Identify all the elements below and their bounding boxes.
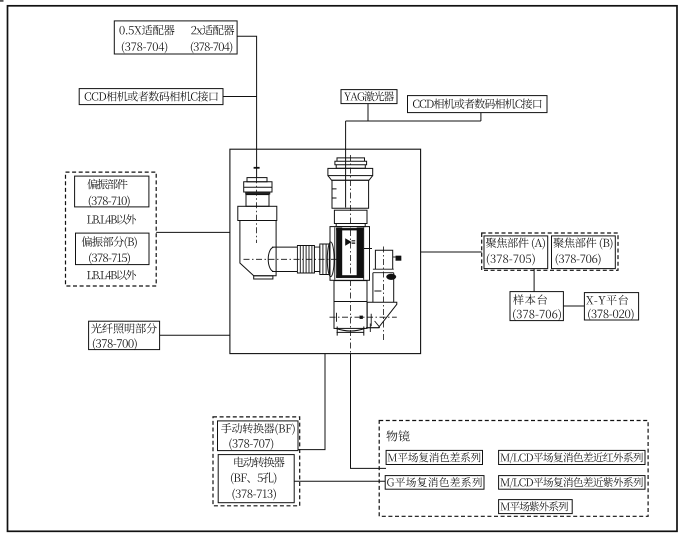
camera port top ring — [247, 178, 267, 182]
beam coupler right black bar — [357, 228, 363, 278]
wire from enclosure bottom to manual nosepiece box — [298, 354, 325, 450]
camera elbow bottom plate — [254, 276, 273, 279]
wire from motor nosepiece box to objective series box — [294, 480, 385, 482]
right attachment prism housing — [367, 302, 397, 328]
wire from fiber illuminator label to enclosure — [160, 334, 230, 336]
dashed group box: focus parts — [482, 233, 618, 270]
note text: LB.L4B excluded (upper) — [87, 214, 136, 224]
beam coupler top band — [336, 228, 363, 230]
note text: LB.L4B excluded (lower) — [87, 270, 136, 280]
microscope enclosure rectangle — [230, 149, 421, 353]
camera port flange — [238, 206, 277, 220]
column lower tube — [334, 281, 367, 302]
label box: specimen stage (378-706) — [510, 292, 563, 321]
camera elbow body — [240, 221, 276, 276]
label box: focus part A (378-705) — [484, 236, 548, 269]
label box: M plan UV series — [499, 500, 573, 514]
relay tube knurled ring 2 — [320, 244, 330, 275]
wire from polarizer dashed box to enclosure — [156, 231, 230, 233]
wire from left CCD C-mount label to camera port centerline — [223, 96, 257, 98]
horizontal relay tube with end dome — [268, 247, 297, 271]
label box: M plan apochromat series — [386, 450, 482, 464]
camera port thin ring — [246, 192, 271, 194]
beam coupler bottom band — [336, 275, 363, 278]
wire from stage box to X-Y stage box — [563, 305, 584, 307]
camera port alignment tick — [254, 167, 260, 169]
right attachment joint lines — [373, 269, 394, 273]
right attachment lower body — [373, 273, 394, 303]
camera port neck cylinder — [246, 195, 269, 207]
label box: M/LCD plan apochromat NUV series — [499, 476, 645, 490]
camera port centerline (dash-dot) — [256, 177, 258, 243]
objective mount bottom flange — [336, 327, 365, 336]
stage axis dot — [360, 316, 363, 319]
label box: M/LCD plan apochromat NIR series — [499, 450, 645, 464]
beam coupler cube outline — [330, 227, 370, 281]
wire from focus part A to stage box — [533, 269, 535, 292]
label box: G plan apochromat series — [385, 476, 484, 490]
right attachment top bolt — [393, 256, 396, 258]
right attachment centerline (dash-dot) — [383, 247, 385, 342]
label box: polarizer part B (378-715) — [76, 233, 150, 265]
beam coupler inner walls — [335, 224, 372, 280]
right attachment side bolt — [386, 274, 396, 280]
main column centerline (dash-dot) — [350, 155, 352, 354]
column top ring stack — [335, 158, 367, 168]
label box: X-Y stage (378-020) — [584, 293, 638, 320]
label box: manual nosepiece BF (378-707) — [218, 421, 299, 451]
column collar — [328, 168, 373, 175]
wire from adapter box to camera port centerline — [237, 36, 256, 177]
wire from enclosure to focus parts dashed box — [421, 251, 482, 253]
column neck — [336, 224, 365, 227]
wire from column centerline down to objective series box — [351, 354, 387, 469]
label box: fiber optic illuminator (378-700) — [89, 321, 160, 349]
dashed group box: nosepiece options — [213, 417, 300, 506]
column collar taper — [328, 176, 373, 181]
relay tube knurled ring 1 — [297, 246, 314, 274]
beam coupler left black bar — [336, 228, 342, 278]
label box: YAG laser — [341, 90, 397, 104]
wire from YAG laser label down to main column — [346, 104, 481, 208]
label box: focus part B (378-706) — [552, 236, 616, 269]
dashed group box: objectives — [379, 421, 648, 517]
label box: 0.5X adapter / 2x adapter (378-704) — [114, 21, 237, 54]
stage axis tick marks — [337, 313, 372, 327]
dashed group box: polarizer options — [66, 172, 157, 286]
label box: CCD camera C-mount (left) — [79, 89, 223, 105]
beam coupler pointer mark — [346, 239, 356, 245]
objective mount body — [334, 302, 367, 329]
right attachment upper body — [375, 250, 392, 269]
title text: objectives — [386, 430, 409, 441]
label box: motor nosepiece BF 5-hole (378-713) — [218, 455, 294, 503]
label box: polarizer part (378-710) — [75, 176, 149, 207]
relay tube lens face (ellipse) — [327, 242, 334, 277]
relay tube middle section — [314, 246, 319, 274]
stage axis line (dash-dot) — [330, 316, 397, 318]
column middle tube — [334, 210, 367, 223]
relay tube optical axis (dash-dot) — [244, 258, 338, 260]
column upper tube — [332, 180, 369, 208]
camera port knurled ring — [244, 182, 272, 192]
label box: CCD camera C-mount (right) — [408, 96, 548, 113]
prism housing base ticks — [366, 321, 380, 332]
